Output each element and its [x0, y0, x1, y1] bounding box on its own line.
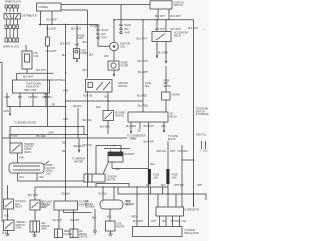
svg-text:RELAY: RELAY: [170, 116, 178, 119]
vr wire labels: [133, 220, 187, 223]
svg-text:COIL: COIL: [34, 55, 40, 58]
wire label GRN WHT BLK: [49, 79, 65, 82]
svg-text:BLK: BLK: [62, 54, 67, 57]
cooling fan relay box: [4, 199, 14, 209]
wire label BLK WHT far right: [188, 27, 205, 32]
condenser motor box O: [84, 174, 105, 182]
svg-text:WHT BLK: WHT BLK: [174, 184, 185, 187]
svg-text:WHT: WHT: [146, 184, 152, 187]
wire label BLK WHT b1: [155, 15, 166, 18]
svg-text:TO ENGINE SWITCH: TO ENGINE SWITCH: [14, 121, 36, 124]
svg-text:PUMP: PUMP: [81, 52, 88, 55]
svg-text:SPARK PLUGS: SPARK PLUGS: [3, 46, 19, 49]
svg-text:BATTERY: BATTERY: [125, 153, 136, 156]
wire label x148 y141: [144, 141, 155, 144]
svg-text:BLU RED: BLU RED: [158, 52, 168, 55]
svg-text:WHT BLK: WHT BLK: [178, 150, 189, 153]
svg-text:BLK: BLK: [163, 220, 168, 223]
wire Q to compressor: [18, 153, 25, 163]
blower switch box G: [103, 111, 114, 121]
condenser feed drop: [95, 146, 97, 175]
svg-text:WHT: WHT: [170, 150, 176, 153]
svg-text:RED: RED: [132, 216, 137, 219]
fan motor box: [30, 221, 40, 232]
svg-text:CHOKE: CHOKE: [172, 94, 181, 97]
wire label BLK WHT: [47, 19, 58, 22]
svg-text:BLK: BLK: [2, 232, 7, 235]
svg-text:WHT: WHT: [125, 32, 131, 35]
battery ground wire: [112, 162, 120, 171]
temp gauge box: [55, 229, 63, 238]
noise filter R1: [46, 25, 50, 127]
thermo fan switch label: [16, 221, 26, 230]
gauge feed: [65, 187, 67, 201]
svg-text:ALTERNATOR: ALTERNATOR: [184, 209, 199, 212]
svg-text:GRN YEL: GRN YEL: [196, 134, 207, 137]
svg-text:BLK YEL: BLK YEL: [84, 95, 94, 98]
filter label CDN WHT: [46, 50, 57, 53]
distributor cap: [4, 14, 21, 20]
wire label BLK WHT y70: [23, 69, 47, 79]
battery B1: [108, 151, 123, 163]
svg-text:BLU RED: BLU RED: [137, 95, 147, 98]
svg-text:YEL: YEL: [94, 26, 99, 29]
junction block box J: [128, 112, 168, 122]
svg-text:MOTOR: MOTOR: [107, 178, 116, 181]
alternator label: [184, 209, 199, 212]
bottom bus 2 y194: [118, 187, 206, 200]
ignition switch box B (top right): [150, 1, 172, 9]
ignition coil box D: [22, 51, 32, 69]
svg-text:BRKT LWR: BRKT LWR: [25, 89, 37, 92]
ignition switch F label: [118, 82, 128, 88]
svg-text:WHT BLK: WHT BLK: [171, 220, 182, 223]
cooling fan switch box: [30, 200, 40, 210]
loop wire y126.5: [10, 126, 84, 135]
sender ground left: [92, 209, 97, 231]
svg-text:BLK: BLK: [105, 96, 110, 99]
wire coil box down: [17, 69, 27, 80]
fld stubs: [200, 141, 208, 153]
svg-text:BLU: BLU: [151, 163, 156, 166]
ground g3: [93, 231, 97, 235]
wire F bottom mid BLK: [96, 92, 109, 111]
temp gauge label: [64, 230, 73, 236]
fusible link box A: [37, 3, 62, 11]
alt sense wire: [156, 145, 188, 207]
battery label: [125, 153, 136, 156]
svg-text:GAUGE: GAUGE: [79, 236, 88, 239]
svg-text:(W/AC): (W/AC): [24, 151, 32, 154]
thermo switch wire down: [9, 135, 11, 144]
wire label GRN BLK on y138: [8, 135, 18, 138]
fusible link 1 tail: [148, 184, 150, 227]
battery feed wire 2: [104, 148, 130, 150]
mirror heater stub: [72, 138, 85, 163]
wire F bottom left BLK YEL: [84, 91, 94, 187]
oil pressure sender K: [100, 200, 123, 209]
svg-text:BLK WHT: BLK WHT: [36, 69, 47, 72]
wire drop from box A right: [51, 11, 53, 25]
condenser component E: [108, 61, 119, 70]
wires box C to bus: [7, 93, 46, 107]
wire label BLK WHT low: [60, 43, 71, 46]
wire relay to switch: [5, 209, 10, 220]
gauge assembly labels: [41, 201, 90, 210]
svg-text:BLU RED: BLU RED: [138, 105, 148, 108]
trunk label GRN: [63, 90, 68, 93]
svg-text:GRN WHT BLK: GRN WHT BLK: [49, 79, 65, 82]
svg-text:BLK: BLK: [83, 69, 88, 72]
ignition coil U1: [110, 42, 119, 51]
wire color labels under box C: [5, 96, 53, 99]
svg-text:BLK: BLK: [89, 54, 94, 57]
svg-text:BLK RED: BLK RED: [100, 126, 110, 129]
svg-text:BLK YEL: BLK YEL: [83, 119, 93, 122]
condenser motor label: [107, 176, 117, 182]
svg-text:GRN: GRN: [63, 90, 68, 93]
svg-text:BLK WHT: BLK WHT: [28, 194, 39, 197]
svg-text:YEL WHT: YEL WHT: [70, 219, 81, 222]
svg-text:YEL: YEL: [62, 150, 67, 153]
spark plug terminal row 2: [5, 25, 19, 28]
svg-text:BLK: BLK: [102, 33, 107, 36]
wire label x87 y120: [83, 119, 93, 122]
fuse panel label: [164, 80, 172, 88]
wire stub down with label GRN: [4, 107, 12, 117]
thermo switch label: [24, 143, 34, 154]
thermo fan switch box: [4, 220, 15, 231]
svg-text:GRN: GRN: [63, 118, 68, 121]
svg-text:BLK WHT: BLK WHT: [71, 28, 82, 31]
svg-text:BLK YEL: BLK YEL: [83, 144, 93, 147]
oil gauge label: [79, 230, 88, 239]
fuel pump condenser: [73, 25, 79, 63]
ignition coil label: [120, 43, 130, 49]
right trunk to vr: [193, 194, 195, 207]
svg-text:SWITCH: SWITCH: [115, 114, 124, 117]
alternator feeds: [158, 194, 176, 207]
ECM labels left: [126, 201, 131, 207]
svg-text:BLK: BLK: [83, 41, 88, 44]
thermo switch box Q: [10, 143, 22, 153]
svg-text:BLK: BLK: [125, 28, 130, 31]
right side harness label: [196, 108, 210, 117]
wire label x47 end: [51, 104, 55, 107]
svg-text:BLK: BLK: [5, 215, 10, 218]
svg-text:BLK: BLK: [161, 184, 166, 187]
svg-text:GRN: GRN: [49, 132, 54, 135]
svg-text:SWITCH: SWITCH: [118, 85, 127, 88]
svg-text:GAUGE: GAUGE: [64, 233, 73, 236]
svg-text:GRN: GRN: [19, 157, 24, 160]
svg-text:W/R: W/R: [96, 106, 101, 109]
wire coil box feed y73: [17, 72, 54, 74]
ground g2: [33, 232, 37, 237]
ground g4: [109, 231, 113, 236]
wire plug to coil box: [25, 45, 27, 51]
svg-text:DISTRIBUTOR: DISTRIBUTOR: [22, 15, 38, 18]
main horizontal bus y24.5: [41, 24, 99, 26]
wire label trunk y151: [62, 150, 67, 153]
bus y134.5: [10, 132, 88, 136]
wire J out 2 YEL: [137, 122, 142, 133]
svg-text:WHT: WHT: [102, 37, 108, 40]
svg-text:BLU WHT: BLU WHT: [138, 71, 149, 74]
wire coil bottom: [104, 51, 114, 61]
trunk label GRN 2: [63, 118, 68, 121]
wire J out 1 BLU RED: [126, 122, 136, 134]
a/c feed bus y138: [2, 137, 137, 140]
svg-text:RELAY: RELAY: [15, 206, 23, 209]
right trunk wire down: [193, 20, 195, 207]
resistor block: [106, 221, 125, 231]
svg-text:(W/P): (W/P): [16, 227, 22, 230]
spark plug P3: [12, 5, 15, 12]
accessory relay label: [174, 32, 189, 38]
cooling fan relay label: [15, 200, 26, 209]
spark plug leads row 2: [6, 28, 17, 38]
wire label BLK WHT vert: [44, 93, 50, 99]
wire label on trunk y142: [62, 142, 67, 145]
sender out wire: [107, 209, 137, 221]
svg-text:PPL RED: PPL RED: [36, 135, 46, 138]
blower switch label: [115, 111, 125, 117]
choke heater: [162, 92, 181, 112]
svg-text:FLD: FLD: [203, 150, 208, 153]
svg-text:YEL: YEL: [62, 142, 67, 145]
battery bus y168.5: [112, 168, 149, 170]
svg-text:BLU WHT: BLU WHT: [144, 141, 155, 144]
bottom bus y187: [35, 186, 168, 188]
wire fan switch to motor: [34, 210, 36, 221]
spark plug P2: [9, 5, 12, 12]
svg-text:BLU: BLU: [20, 176, 25, 179]
svg-text:GRN BLK: GRN BLK: [8, 135, 18, 138]
svg-text:BLK: BLK: [162, 125, 167, 128]
junction block label: [170, 113, 178, 119]
svg-text:RESTR: RESTR: [117, 225, 125, 228]
wire label x143 y60: [138, 60, 149, 63]
voltage regulator box: [133, 227, 183, 237]
second bus wire: [61, 9, 88, 11]
wire coil top from y19.8: [113, 20, 115, 42]
svg-text:BLK WHT: BLK WHT: [155, 15, 166, 18]
vr feed wire: [136, 186, 138, 226]
svg-text:BLK: BLK: [145, 85, 150, 88]
trunk wire x143: [142, 20, 144, 112]
connector arrow on bus: [39, 23, 41, 26]
svg-text:BLU WHT: BLU WHT: [144, 125, 155, 128]
svg-text:BLK WHT: BLK WHT: [171, 15, 182, 18]
svg-text:CDN WHT: CDN WHT: [46, 50, 57, 53]
svg-text:SENDER: SENDER: [85, 206, 95, 209]
coil box label: [34, 52, 40, 58]
svg-text:& HARNESS: & HARNESS: [196, 113, 210, 116]
svg-text:YEL WHT: YEL WHT: [52, 219, 63, 222]
svg-text:BLK WHT: BLK WHT: [155, 28, 166, 31]
wire label BLK WHT under bus: [46, 28, 57, 31]
svg-text:WHT: WHT: [151, 220, 157, 223]
svg-text:WHT: WHT: [197, 184, 203, 187]
main trunk wire x65.6: [65, 25, 67, 188]
svg-text:BLU WHT: BLU WHT: [133, 220, 144, 223]
noise suppressor text: [75, 35, 86, 47]
svg-text:BLK WHT: BLK WHT: [23, 76, 34, 79]
svg-text:BLK: BLK: [92, 216, 97, 219]
alt sense junction: [182, 159, 194, 161]
svg-text:SPARK PLUGS: SPARK PLUGS: [5, 1, 21, 4]
spark plug row 2 bodies: [5, 38, 19, 42]
accessory relay feed wires: [157, 20, 166, 32]
to condenser fan label: [127, 135, 146, 141]
wire label BLK WHT mid: [90, 25, 101, 28]
svg-text:BLAM: BLAM: [125, 24, 131, 27]
distributor label: [22, 15, 38, 18]
wire label BLK YEL on x87.5: [83, 144, 93, 147]
svg-text:COIL: COIL: [120, 46, 126, 49]
ground g1: [2, 231, 10, 236]
bus link stubs: [151, 187, 163, 194]
gauge wires down: [52, 210, 92, 229]
voltage regulator label: [185, 229, 199, 235]
svg-text:W/R: W/R: [104, 55, 109, 58]
svg-text:BLU WHT: BLU WHT: [137, 38, 148, 41]
distributor lower terminals: [6, 19, 17, 25]
svg-text:SWITCH: SWITCH: [174, 4, 183, 7]
compressor label: [46, 164, 56, 175]
spark plug P4: [16, 5, 19, 12]
to engine switch label: [14, 121, 36, 124]
wire label BLK WHT under bus 2: [71, 28, 82, 31]
gauge assembly box M: [54, 201, 78, 210]
svg-text:FILTER: FILTER: [121, 65, 129, 68]
right label GRN YEL: [196, 134, 207, 137]
wire label PPL RED: [36, 135, 46, 138]
svg-text:BLAM: BLAM: [102, 29, 108, 32]
svg-text:TO A/C: TO A/C: [129, 138, 137, 141]
wire label BLK WHT r2: [171, 28, 182, 31]
wire label x143 y72: [138, 71, 149, 74]
oil gauge box: [70, 229, 78, 238]
svg-text:BLU RED: BLU RED: [126, 125, 136, 128]
ignition switch label: [174, 1, 184, 7]
battery ground strap: [103, 162, 109, 174]
cooling fan relay column wire: [7, 185, 9, 199]
connector pins column 1: [94, 25, 108, 40]
svg-text:BLK WHT: BLK WHT: [188, 27, 199, 30]
wire from box B pin 1: [157, 9, 159, 20]
wire label BLU RED: [158, 52, 168, 55]
fuel pump label: [81, 50, 88, 56]
compressor ground wires: [18, 173, 45, 181]
wire drop from box A left: [40, 11, 42, 25]
fan motor label: [41, 222, 50, 231]
branch wire y101: [65, 100, 143, 102]
top bus wire (HOT): [61, 4, 150, 6]
trunk x143 labels: [137, 38, 149, 108]
svg-text:(W/P): (W/P): [41, 228, 47, 231]
fan switch column wire: [34, 187, 36, 200]
accessory relay box: [152, 32, 171, 42]
svg-text:YEL: YEL: [182, 220, 187, 223]
connector pins column 2: [120, 5, 131, 35]
junction dot x114 y19.8: [113, 19, 115, 21]
svg-text:RELAY: RELAY: [174, 35, 182, 38]
wire pins to coil: [98, 39, 110, 47]
wire G to bus134: [100, 121, 110, 135]
spark plugs (top row) label: [5, 1, 21, 4]
to fuse block label: [168, 135, 178, 141]
wire J out 4 BLK: [162, 122, 167, 133]
bus y106.5: [7, 106, 66, 108]
fuse block label: [145, 82, 152, 88]
svg-text:BLU: BLU: [40, 176, 45, 179]
svg-text:W/PNL: W/PNL: [164, 85, 172, 88]
fusible link 1: [148, 169, 160, 184]
alternator box: [156, 207, 184, 216]
wire below E with connector: [113, 70, 115, 77]
svg-text:BLK: BLK: [126, 203, 131, 206]
alternator output wires: [160, 216, 180, 227]
wire from box B pin 2: [168, 9, 170, 20]
svg-text:BLU WHT: BLU WHT: [138, 60, 149, 63]
svg-text:BLOCK: BLOCK: [168, 138, 176, 141]
wire label x148 y164: [151, 163, 156, 166]
relay output wire 2: [165, 42, 167, 65]
ground bus y181: [18, 180, 85, 182]
svg-text:YEL BLK: YEL BLK: [73, 105, 83, 108]
spark plug P1: [5, 5, 8, 12]
sender feeds: [103, 187, 114, 200]
svg-text:C/B: C/B: [51, 104, 55, 107]
svg-text:FLTR: FLTR: [78, 37, 84, 40]
svg-text:HEATER: HEATER: [74, 160, 83, 163]
fusible link 2: [166, 141, 178, 195]
wire label BLK WHT r1: [155, 28, 166, 31]
svg-text:LINK: LINK: [172, 176, 177, 179]
wire label BLK WHT b2: [171, 15, 182, 18]
left trunk wire x87.5: [87, 10, 89, 78]
sender labels: [85, 200, 134, 209]
junction dots y19.8: [142, 19, 167, 21]
relay output wire 1 with connector: [156, 42, 158, 59]
battery feed wire: [96, 145, 121, 152]
cooling fan switch label: [42, 201, 53, 210]
svg-text:GRN YEL: GRN YEL: [156, 150, 167, 153]
svg-text:GRN YEL: GRN YEL: [42, 96, 53, 99]
turn signal box C: [13, 80, 50, 93]
left frame wire: [0, 63, 2, 223]
horizontal wire y19.5: [114, 19, 194, 21]
svg-text:FUSIBLE: FUSIBLE: [39, 6, 49, 9]
upper shelf line: [96, 184, 129, 188]
svg-text:LINK: LINK: [153, 176, 158, 179]
wire label trunk y55: [62, 54, 67, 57]
condenser label: [121, 62, 129, 68]
svg-text:COIL: COIL: [46, 172, 52, 175]
wire J out 3 BLU WHT: [144, 122, 155, 172]
labels along trunk x88: [83, 41, 94, 72]
svg-text:REGULATOR: REGULATOR: [185, 232, 199, 235]
bus labels: [28, 184, 203, 197]
svg-text:BLK: BLK: [18, 96, 23, 99]
spark plugs (bottom) label: [3, 46, 19, 49]
wire x78 YEL BLK: [73, 105, 83, 138]
compressor clutch P: [9, 161, 49, 173]
choke feed wire: [165, 66, 167, 92]
svg-text:BLK: BLK: [107, 216, 112, 219]
